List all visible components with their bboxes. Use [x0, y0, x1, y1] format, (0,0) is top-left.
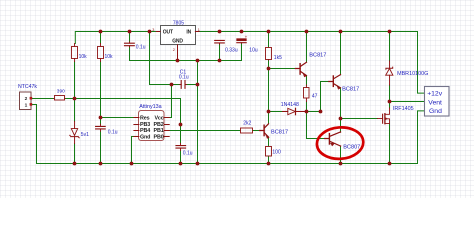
- junction (389.5,31.5): [388, 30, 392, 34]
- wire bc817-3 emitter to 100: [268, 137, 270, 146]
- wire mbr bottom to vent: [390, 85, 426, 108]
- svg-text:PB1: PB1: [154, 128, 164, 134]
- svg-text:1: 1: [198, 28, 200, 32]
- junction (180.5,124.5): [179, 123, 183, 127]
- svg-text:BC817: BC817: [342, 87, 359, 93]
- resistor R3 390: [55, 96, 65, 101]
- svg-text:+12v: +12v: [427, 91, 443, 98]
- junction (74.5,98.5): [73, 97, 77, 101]
- junction (219.5,31.5): [218, 30, 222, 34]
- junction (241.5,31.5): [240, 30, 244, 34]
- svg-text:PB0: PB0: [154, 135, 164, 141]
- junction (171.5,84.5): [170, 83, 174, 87]
- junction (100.5,117.5): [99, 116, 103, 120]
- wire reset net: [101, 62, 134, 125]
- svg-text:IRF1405: IRF1405: [393, 106, 414, 112]
- transistor Q2 BC817: [329, 75, 341, 90]
- wire 47 down bc807 base: [307, 102, 325, 139]
- svg-text:0.33u: 0.33u: [225, 47, 238, 53]
- svg-text:MBR10100G: MBR10100G: [397, 71, 428, 77]
- wire NTC pin2 to R390: [32, 98, 54, 100]
- svg-text:OUT: OUT: [163, 29, 173, 35]
- junction (340.5,118.5): [339, 117, 343, 121]
- junction (320.5,111.5): [319, 110, 323, 114]
- svg-text:NTC47k: NTC47k: [18, 84, 37, 90]
- resistor R2 10k: [98, 47, 104, 59]
- diode 1N4148: [288, 108, 295, 114]
- wire 5V drop to C1: [150, 32, 198, 85]
- resistor R6 2k2: [241, 128, 253, 133]
- wire bc817-2 emitter to gate node: [340, 88, 342, 119]
- wire gnd rail A: [130, 43, 242, 163]
- svg-text:Gnd: Gnd: [140, 135, 150, 141]
- junction (197.5,163.5): [196, 162, 200, 166]
- wire 1k5 top: [268, 32, 270, 48]
- svg-text:GND: GND: [172, 39, 183, 45]
- red annotation ellipse around BC807: [316, 126, 364, 161]
- junction (389.5,101.5): [388, 100, 392, 104]
- svg-text:Res: Res: [140, 116, 150, 122]
- junction (306.5,31.5): [305, 30, 309, 34]
- wire mosfet source to gnd: [389, 123, 391, 163]
- junction (180.5,163.5): [179, 162, 183, 166]
- svg-text:7805: 7805: [173, 21, 184, 27]
- transistor Q1 BC817: [295, 62, 306, 77]
- junction (177.5,60.5): [176, 59, 180, 63]
- svg-text:0.1u: 0.1u: [136, 44, 146, 50]
- resistor R5 47: [304, 88, 310, 99]
- junction (129.5,31.5): [128, 30, 132, 34]
- junction (100.5,163.5): [99, 162, 103, 166]
- zener diode 5v1: [71, 129, 77, 136]
- svg-text:2k2: 2k2: [243, 121, 251, 127]
- transistor Q3 BC817: [260, 124, 270, 139]
- junction (268.5,163.5): [267, 162, 271, 166]
- junction (74.5,163.5): [73, 162, 77, 166]
- svg-text:1k5: 1k5: [274, 55, 282, 61]
- capacitor 10u polarized: [237, 39, 246, 41]
- junction (219.5,60.5): [218, 59, 222, 63]
- wire mbr top: [389, 32, 391, 62]
- junction (197.5,60.5): [196, 59, 200, 63]
- junction (389.5,163.5): [388, 162, 392, 166]
- wire divider node: [65, 62, 181, 144]
- junction (268.5,31.5): [267, 30, 271, 34]
- resistor R4 1k5: [266, 48, 272, 60]
- wire gate to mosfet: [341, 119, 378, 133]
- connector X2 output: [425, 87, 450, 117]
- svg-text:10k: 10k: [79, 54, 88, 60]
- wire pb2 cap to gnd: [180, 150, 182, 163]
- wire bc817-2 collector: [340, 32, 342, 75]
- junction (149.5,31.5): [148, 30, 152, 34]
- svg-text:Gnd: Gnd: [429, 108, 442, 115]
- svg-text:1N4148: 1N4148: [281, 102, 299, 108]
- wire attiny gnd: [132, 137, 134, 164]
- IC 7805 regulator box: [152, 26, 200, 61]
- capacitor 0.1u reset: [96, 126, 106, 128]
- wire 1k5 bottom node: [269, 60, 296, 111]
- junction (197.5,84.5): [196, 83, 200, 87]
- svg-text:3: 3: [152, 28, 154, 32]
- svg-text:0.1u: 0.1u: [108, 130, 118, 136]
- svg-text:0.1u: 0.1u: [183, 151, 193, 157]
- wire C1 left to Vcc: [169, 85, 171, 118]
- svg-text:PB3: PB3: [140, 122, 150, 128]
- svg-text:Attiny13a: Attiny13a: [139, 104, 161, 110]
- capacitor 0.1u input: [125, 43, 135, 46]
- wire bc817-3 collector: [268, 112, 270, 124]
- svg-text:BC817: BC817: [271, 129, 288, 135]
- junction (340.5,163.5): [339, 162, 343, 166]
- capacitor C1: [181, 81, 185, 89]
- junction (268.5,68.5): [267, 67, 271, 71]
- junction (131.5,163.5): [130, 162, 134, 166]
- capacitor 0.33u: [215, 40, 225, 43]
- svg-text:PB2: PB2: [154, 122, 164, 128]
- wire bc807 collector to gnd: [340, 146, 342, 164]
- junction (306.5,111.5): [305, 110, 309, 114]
- IC U2 Attiny13a box: [134, 111, 169, 141]
- wire NTC pin1 down: [32, 105, 37, 164]
- wire 100 to gnd: [268, 156, 270, 163]
- svg-text:5v1: 5v1: [81, 132, 89, 138]
- wire +5V out rail: [75, 32, 156, 44]
- junction (100.5,31.5): [99, 30, 103, 34]
- wire bc817-1 emitter to 47: [306, 76, 308, 86]
- wire diode row: [269, 111, 321, 113]
- svg-text:IN: IN: [186, 29, 191, 35]
- wire bc817-2 base: [321, 82, 329, 112]
- svg-text:390: 390: [57, 89, 65, 95]
- mosfet U3 IRF1405: [378, 108, 390, 124]
- resistor R1 10k: [72, 47, 78, 59]
- svg-text:Vcc: Vcc: [154, 116, 163, 122]
- connector X1 NTC47k: [20, 92, 33, 110]
- transistor Q4 BC807 pnp: [325, 132, 341, 146]
- svg-text:PB4: PB4: [140, 128, 150, 134]
- wire +12V top rail: [199, 32, 425, 94]
- svg-text:BC817: BC817: [309, 53, 326, 59]
- junction (268.5,111.5): [267, 110, 271, 114]
- svg-text:100: 100: [272, 150, 281, 156]
- wire pb1 to 2k2: [169, 130, 259, 132]
- wire zener to gnd: [74, 144, 76, 164]
- svg-text:Vent: Vent: [428, 100, 442, 107]
- wire bottom gnd rail: [37, 111, 426, 164]
- svg-text:BC807: BC807: [343, 144, 360, 150]
- svg-text:0.1u: 0.1u: [179, 75, 189, 81]
- wire reset cap to gnd: [100, 131, 102, 163]
- resistor R7 100: [266, 147, 272, 157]
- svg-text:47: 47: [312, 93, 318, 99]
- schottky diode MBR10100G: [386, 69, 393, 76]
- capacitor 0.1u pb2: [176, 146, 186, 149]
- svg-text:2: 2: [173, 48, 175, 52]
- svg-text:+: +: [245, 35, 248, 40]
- svg-text:10u: 10u: [249, 47, 258, 53]
- wire bc817-1 collector: [306, 32, 308, 63]
- wire vcc up: [169, 117, 171, 119]
- svg-text:10k: 10k: [105, 54, 114, 60]
- junction (340.5,31.5): [339, 30, 343, 34]
